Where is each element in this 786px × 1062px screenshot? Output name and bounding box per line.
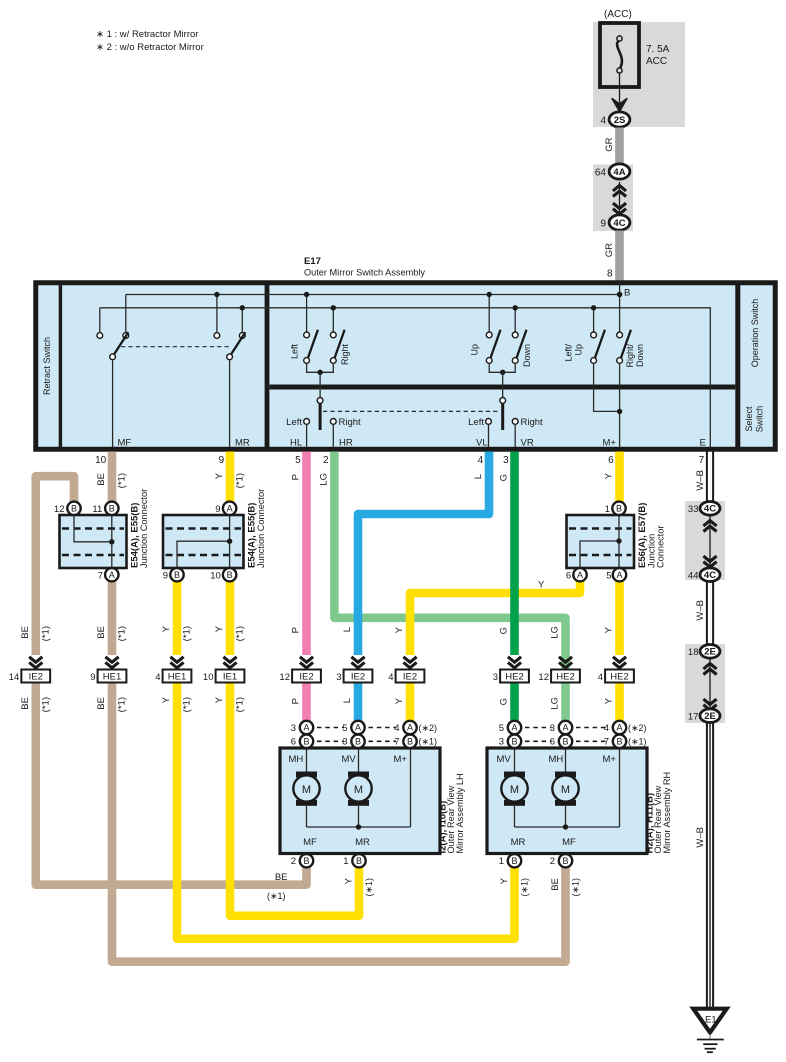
svg-text:B: B [356,856,362,866]
wire G from VR to RH mirror MV [510,452,519,656]
svg-text:2: 2 [291,856,296,867]
bus line 2 (with E drop) [100,308,711,447]
link arrows 4A-4C [619,182,621,213]
svg-text:M+: M+ [603,438,617,449]
svg-text:6: 6 [550,737,555,748]
arrow into 2S [612,99,627,112]
svg-text:18: 18 [688,647,699,658]
svg-text:Mirror Assembly RH: Mirror Assembly RH [662,772,672,854]
svg-text:M: M [561,784,570,796]
svg-text:1: 1 [343,856,348,867]
svg-text:Y: Y [604,626,615,633]
svg-text:P: P [291,627,302,633]
connector HE2 pin 4 [613,657,626,662]
svg-text:Y: Y [161,696,172,703]
svg-text:(∗1): (∗1) [267,891,286,901]
svg-text:33: 33 [688,504,699,515]
svg-text:Retract Switch: Retract Switch [42,337,52,395]
svg-text:(*1): (*1) [182,626,193,641]
svg-text:4C: 4C [704,504,716,515]
wire BE from 12(B) to LH mirror MF [36,476,74,655]
select contacts VL [486,419,492,425]
svg-text:Right/: Right/ [625,344,635,368]
svg-text:9: 9 [600,219,606,230]
wire Y from M+ to E56 [615,452,624,509]
select contacts VR [512,419,518,425]
Right/Down drop to M+ [619,363,621,447]
svg-text:A: A [562,723,568,733]
svg-text:Y: Y [343,877,354,884]
svg-text:11: 11 [92,504,102,515]
svg-text:Mirror Assembly LH: Mirror Assembly LH [455,773,465,853]
svg-text:5: 5 [342,723,347,734]
gray block 4C [685,501,725,580]
junction connector E56(A),E57(B) [567,515,635,568]
svg-text:Operation Switch: Operation Switch [750,299,760,368]
svg-text:Y: Y [214,625,225,632]
svg-text:Down: Down [522,344,532,367]
svg-text:B: B [511,856,517,866]
gray block 2E [685,644,725,723]
wire Y from MR to E54 9A [226,452,235,509]
svg-text:Y: Y [214,472,225,479]
svg-text:E: E [700,438,706,449]
svg-text:4: 4 [478,455,484,466]
wire Y from 9(B) to RH mirror MR [173,574,182,655]
svg-text:B: B [109,504,115,514]
svg-text:M: M [510,784,519,796]
svg-text:HE1: HE1 [168,672,186,683]
svg-text:B: B [174,570,180,580]
junction connector E54(A),E55(B) right [163,515,244,568]
bus line 1 [126,294,620,296]
svg-text:64: 64 [595,168,607,179]
wire W-B E17 to 33(4C) [706,452,708,503]
svg-text:3: 3 [503,455,509,466]
connector IE2 pin 12 [300,657,313,662]
svg-text:Outer Mirror Switch Assembly: Outer Mirror Switch Assembly [304,268,425,278]
svg-text:Up: Up [574,344,584,356]
svg-text:5: 5 [606,570,611,581]
svg-text:L: L [342,698,353,703]
svg-text:Left: Left [286,417,302,428]
svg-text:(∗1): (∗1) [628,737,647,747]
svg-text:Y: Y [394,626,405,633]
svg-text:(*1): (*1) [235,473,246,488]
svg-text:3: 3 [336,672,341,683]
svg-text:HE1: HE1 [103,672,121,683]
svg-text:4: 4 [600,116,606,127]
svg-text:12: 12 [54,504,65,515]
svg-text:Y: Y [214,696,225,703]
svg-text:M: M [354,784,363,796]
svg-text:Junction Connector: Junction Connector [139,489,149,568]
svg-text:B: B [562,737,568,747]
svg-text:Down: Down [635,344,645,367]
svg-text:9: 9 [163,570,168,581]
gray block fuse area [593,22,685,127]
svg-text:IE2: IE2 [29,672,43,683]
svg-text:2: 2 [550,856,555,867]
svg-text:1: 1 [499,856,504,867]
svg-text:P: P [291,474,302,480]
svg-text:Y: Y [499,877,510,884]
svg-text:5: 5 [295,455,301,466]
svg-text:3: 3 [550,723,555,734]
divider operation/select [270,385,736,390]
wire LG from HR to RH mirror MH [334,452,565,722]
svg-text:(*1): (*1) [40,697,51,712]
svg-text:BE: BE [550,878,561,891]
svg-text:(ACC): (ACC) [604,9,632,20]
svg-text:7: 7 [699,455,705,466]
svg-text:B: B [616,737,622,747]
svg-text:G: G [499,474,510,481]
retract link dashed [121,346,232,348]
svg-text:3: 3 [291,723,296,734]
link arrows 18-17 [709,659,711,709]
svg-text:MV: MV [497,754,512,765]
svg-text:L: L [473,474,484,479]
svg-text:Connector: Connector [656,526,666,568]
svg-text:Up: Up [470,344,480,356]
svg-text:A: A [616,723,622,733]
retract label column separator [59,281,62,452]
connector IE2 pin 3 [351,657,364,662]
motor at x=358.5 [348,772,369,778]
select bar HL/HR [317,398,323,404]
svg-text:LG: LG [550,697,561,710]
svg-text:HE2: HE2 [610,672,628,683]
svg-text:(∗1): (∗1) [364,878,374,897]
svg-text:4C: 4C [613,218,625,229]
svg-text:∗ 1 : w/ Retractor Mirror: ∗ 1 : w/ Retractor Mirror [96,29,198,40]
connector HE1 pin 9 [105,657,118,662]
svg-text:GR: GR [604,137,615,151]
svg-text:IE2: IE2 [351,672,365,683]
svg-text:B: B [71,504,77,514]
svg-text:9: 9 [215,504,220,515]
svg-text:1: 1 [605,504,610,515]
svg-text:MH: MH [549,754,564,765]
operation switch Right [332,308,334,332]
wire Y from IE2 to LH mirror M+ [406,683,415,721]
svg-text:Y: Y [538,580,545,591]
svg-text:MF: MF [118,438,132,449]
svg-text:MF: MF [562,837,576,848]
svg-text:∗ 2 : w/o Retractor Mirror: ∗ 2 : w/o Retractor Mirror [96,42,204,53]
svg-text:IE2: IE2 [299,672,313,683]
svg-text:MV: MV [342,754,357,765]
svg-text:W–B: W–B [695,600,706,621]
wire BE from 7(A) to RH mirror MF [108,574,117,655]
svg-text:A: A [616,570,622,580]
svg-text:L: L [342,627,353,632]
svg-text:Right: Right [340,344,350,366]
divider retract/operation [265,281,270,452]
svg-text:Right: Right [339,417,362,428]
svg-text:8: 8 [607,269,613,280]
svg-text:(*1): (*1) [235,697,246,712]
svg-text:14: 14 [9,672,20,683]
svg-text:MF: MF [303,837,317,848]
svg-text:ACC: ACC [646,56,667,67]
svg-text:9: 9 [90,672,95,683]
svg-text:MR: MR [355,837,370,848]
svg-text:G: G [499,627,510,634]
connector HE2 pin 12 [559,657,572,662]
svg-text:MR: MR [511,837,526,848]
gray block 4A-4C connector area [593,165,633,232]
svg-text:A: A [511,723,517,733]
wire W-B 44 to 18 [706,582,708,646]
svg-text:12: 12 [279,672,290,683]
E17 Outer Mirror Switch Assembly block [36,283,776,450]
svg-text:B: B [624,288,630,299]
svg-text:3: 3 [342,737,347,748]
retract switch MF [99,308,101,333]
svg-text:IE2: IE2 [403,672,417,683]
svg-text:BE: BE [20,626,31,639]
svg-text:(*1): (*1) [117,473,128,488]
svg-text:LG: LG [319,473,330,486]
svg-text:HL: HL [290,438,302,449]
svg-text:P: P [291,698,302,704]
svg-text:Switch: Switch [755,406,765,433]
operation switch Down [514,308,516,332]
svg-text:Left: Left [290,344,300,360]
label column separator right [735,281,740,452]
svg-text:(∗2): (∗2) [419,723,438,733]
svg-text:4A: 4A [613,167,625,178]
svg-text:A: A [355,723,361,733]
svg-text:Left: Left [468,417,484,428]
svg-text:A: A [577,570,583,580]
operation switch Left [306,295,308,333]
svg-text:LG: LG [550,626,561,639]
ground E1 [693,1009,726,1033]
up/down switch commons [489,363,515,372]
retract switch MR [216,295,218,333]
svg-text:4: 4 [155,672,160,683]
svg-text:W–B: W–B [695,470,706,491]
wire L from VL to LH mirror MV [358,452,489,656]
svg-text:GR: GR [604,243,615,257]
svg-text:HE2: HE2 [556,672,574,683]
svg-text:Y: Y [161,625,172,632]
svg-text:7. 5A: 7. 5A [646,44,670,55]
select bar VL/VR [500,398,506,404]
wire BE from MF to E54 11B [108,452,117,509]
svg-text:6: 6 [291,737,296,748]
svg-text:Junction Connector: Junction Connector [256,489,266,568]
svg-text:(∗1): (∗1) [570,878,580,897]
svg-text:Select: Select [744,406,754,432]
svg-text:BE: BE [20,697,31,710]
svg-text:BE: BE [275,872,288,883]
connector IE2 pin 4 [403,657,416,662]
svg-text:4: 4 [598,672,603,683]
svg-text:BE: BE [96,626,107,639]
svg-text:10: 10 [210,570,221,581]
svg-text:2E: 2E [704,711,716,722]
svg-text:6: 6 [608,455,614,466]
node B [617,292,622,297]
link arrows 33-44 [709,516,711,566]
operation switch Right/Down [619,295,621,333]
fuse 7.5A ACC [600,23,639,87]
svg-text:G: G [499,698,510,705]
svg-text:B: B [227,570,233,580]
svg-text:M+: M+ [394,754,408,765]
svg-text:10: 10 [95,455,107,466]
select contacts HL [304,419,310,425]
wire W-B 17 to ground [706,723,708,1008]
wire Y branch from 6(A) to LH mirror M+ [410,578,580,655]
motor at x=306.5 [296,772,317,778]
svg-text:VR: VR [521,438,534,449]
svg-text:BE: BE [96,473,107,486]
svg-text:MR: MR [235,438,250,449]
wire P from HL to LH mirror MH [302,452,311,656]
svg-text:Y: Y [604,472,615,479]
motor at x=514.5 [504,772,525,778]
svg-text:M+: M+ [603,754,617,765]
svg-text:A: A [227,504,233,514]
svg-text:B: B [407,737,413,747]
svg-text:B: B [511,737,517,747]
connector IE1 pin 10 [223,657,236,662]
left/right switch commons [307,363,334,372]
svg-text:2S: 2S [614,115,626,126]
wire GR upper [615,128,624,168]
svg-text:W–B: W–B [695,827,706,848]
svg-text:2: 2 [323,455,329,466]
svg-text:6: 6 [566,570,571,581]
select link dashed [323,410,500,412]
svg-text:2E: 2E [704,647,716,658]
svg-text:9: 9 [219,455,225,466]
svg-text:7: 7 [604,737,609,748]
svg-text:4: 4 [604,723,609,734]
motor at x=565.5 [555,772,576,778]
lead fuse to 2S [619,73,621,109]
svg-text:(*1): (*1) [235,626,246,641]
svg-text:(∗1): (∗1) [519,878,529,897]
svg-text:4: 4 [394,723,399,734]
svg-text:A: A [109,570,115,580]
outer rear view mirror assembly RH H2(A),H11(B) [487,748,647,854]
svg-text:MH: MH [289,754,304,765]
svg-text:10: 10 [203,672,214,683]
svg-text:A: A [303,723,309,733]
svg-text:(∗1): (∗1) [419,737,438,747]
select contacts HR [330,419,336,425]
lead from pin 8 to node B [619,282,621,295]
svg-text:BE: BE [96,697,107,710]
svg-text:(*1): (*1) [182,697,193,712]
svg-text:B: B [303,737,309,747]
svg-text:5: 5 [499,723,504,734]
svg-text:7: 7 [394,737,399,748]
svg-text:Y: Y [604,697,615,704]
svg-text:7: 7 [98,570,103,581]
svg-text:IE1: IE1 [223,672,237,683]
svg-text:HR: HR [339,438,353,449]
svg-text:B: B [355,737,361,747]
svg-text:4: 4 [388,672,393,683]
outer rear view mirror assembly LH I2(A),I10(B) [280,748,440,854]
connector HE1 pin 4 [170,657,183,662]
svg-text:M: M [302,784,311,796]
operation switch Left/Up [593,308,595,332]
svg-text:44: 44 [688,571,699,582]
junction connector E54(A),E55(B) left [60,515,127,568]
svg-text:12: 12 [538,672,549,683]
svg-text:Left/: Left/ [564,344,574,362]
svg-text:3: 3 [493,672,498,683]
svg-text:B: B [303,856,309,866]
Left/Up drop to M+ join [594,363,620,411]
svg-text:Right: Right [521,417,544,428]
svg-text:Y: Y [394,697,405,704]
connector IE2 pin 14 [29,657,42,662]
svg-text:VL: VL [476,438,488,449]
connector HE2 pin 3 [508,657,521,662]
operation switch Up [488,295,490,333]
svg-text:(*1): (*1) [40,626,51,641]
svg-text:(∗2): (∗2) [628,723,647,733]
wire GR lower [615,231,624,281]
svg-text:3: 3 [499,737,504,748]
wire Y from 5(A) to RH mirror M+ [615,574,624,655]
wire Y from 10(B) to LH mirror MR [226,574,235,655]
svg-text:(*1): (*1) [117,626,128,641]
svg-text:E17: E17 [304,256,321,267]
svg-text:A: A [407,723,413,733]
svg-text:HE2: HE2 [505,672,523,683]
svg-text:(*1): (*1) [117,697,128,712]
svg-text:B: B [616,504,622,514]
svg-text:E1: E1 [705,1015,717,1026]
svg-text:17: 17 [688,712,699,723]
svg-text:B: B [562,856,568,866]
svg-text:4C: 4C [704,570,716,581]
